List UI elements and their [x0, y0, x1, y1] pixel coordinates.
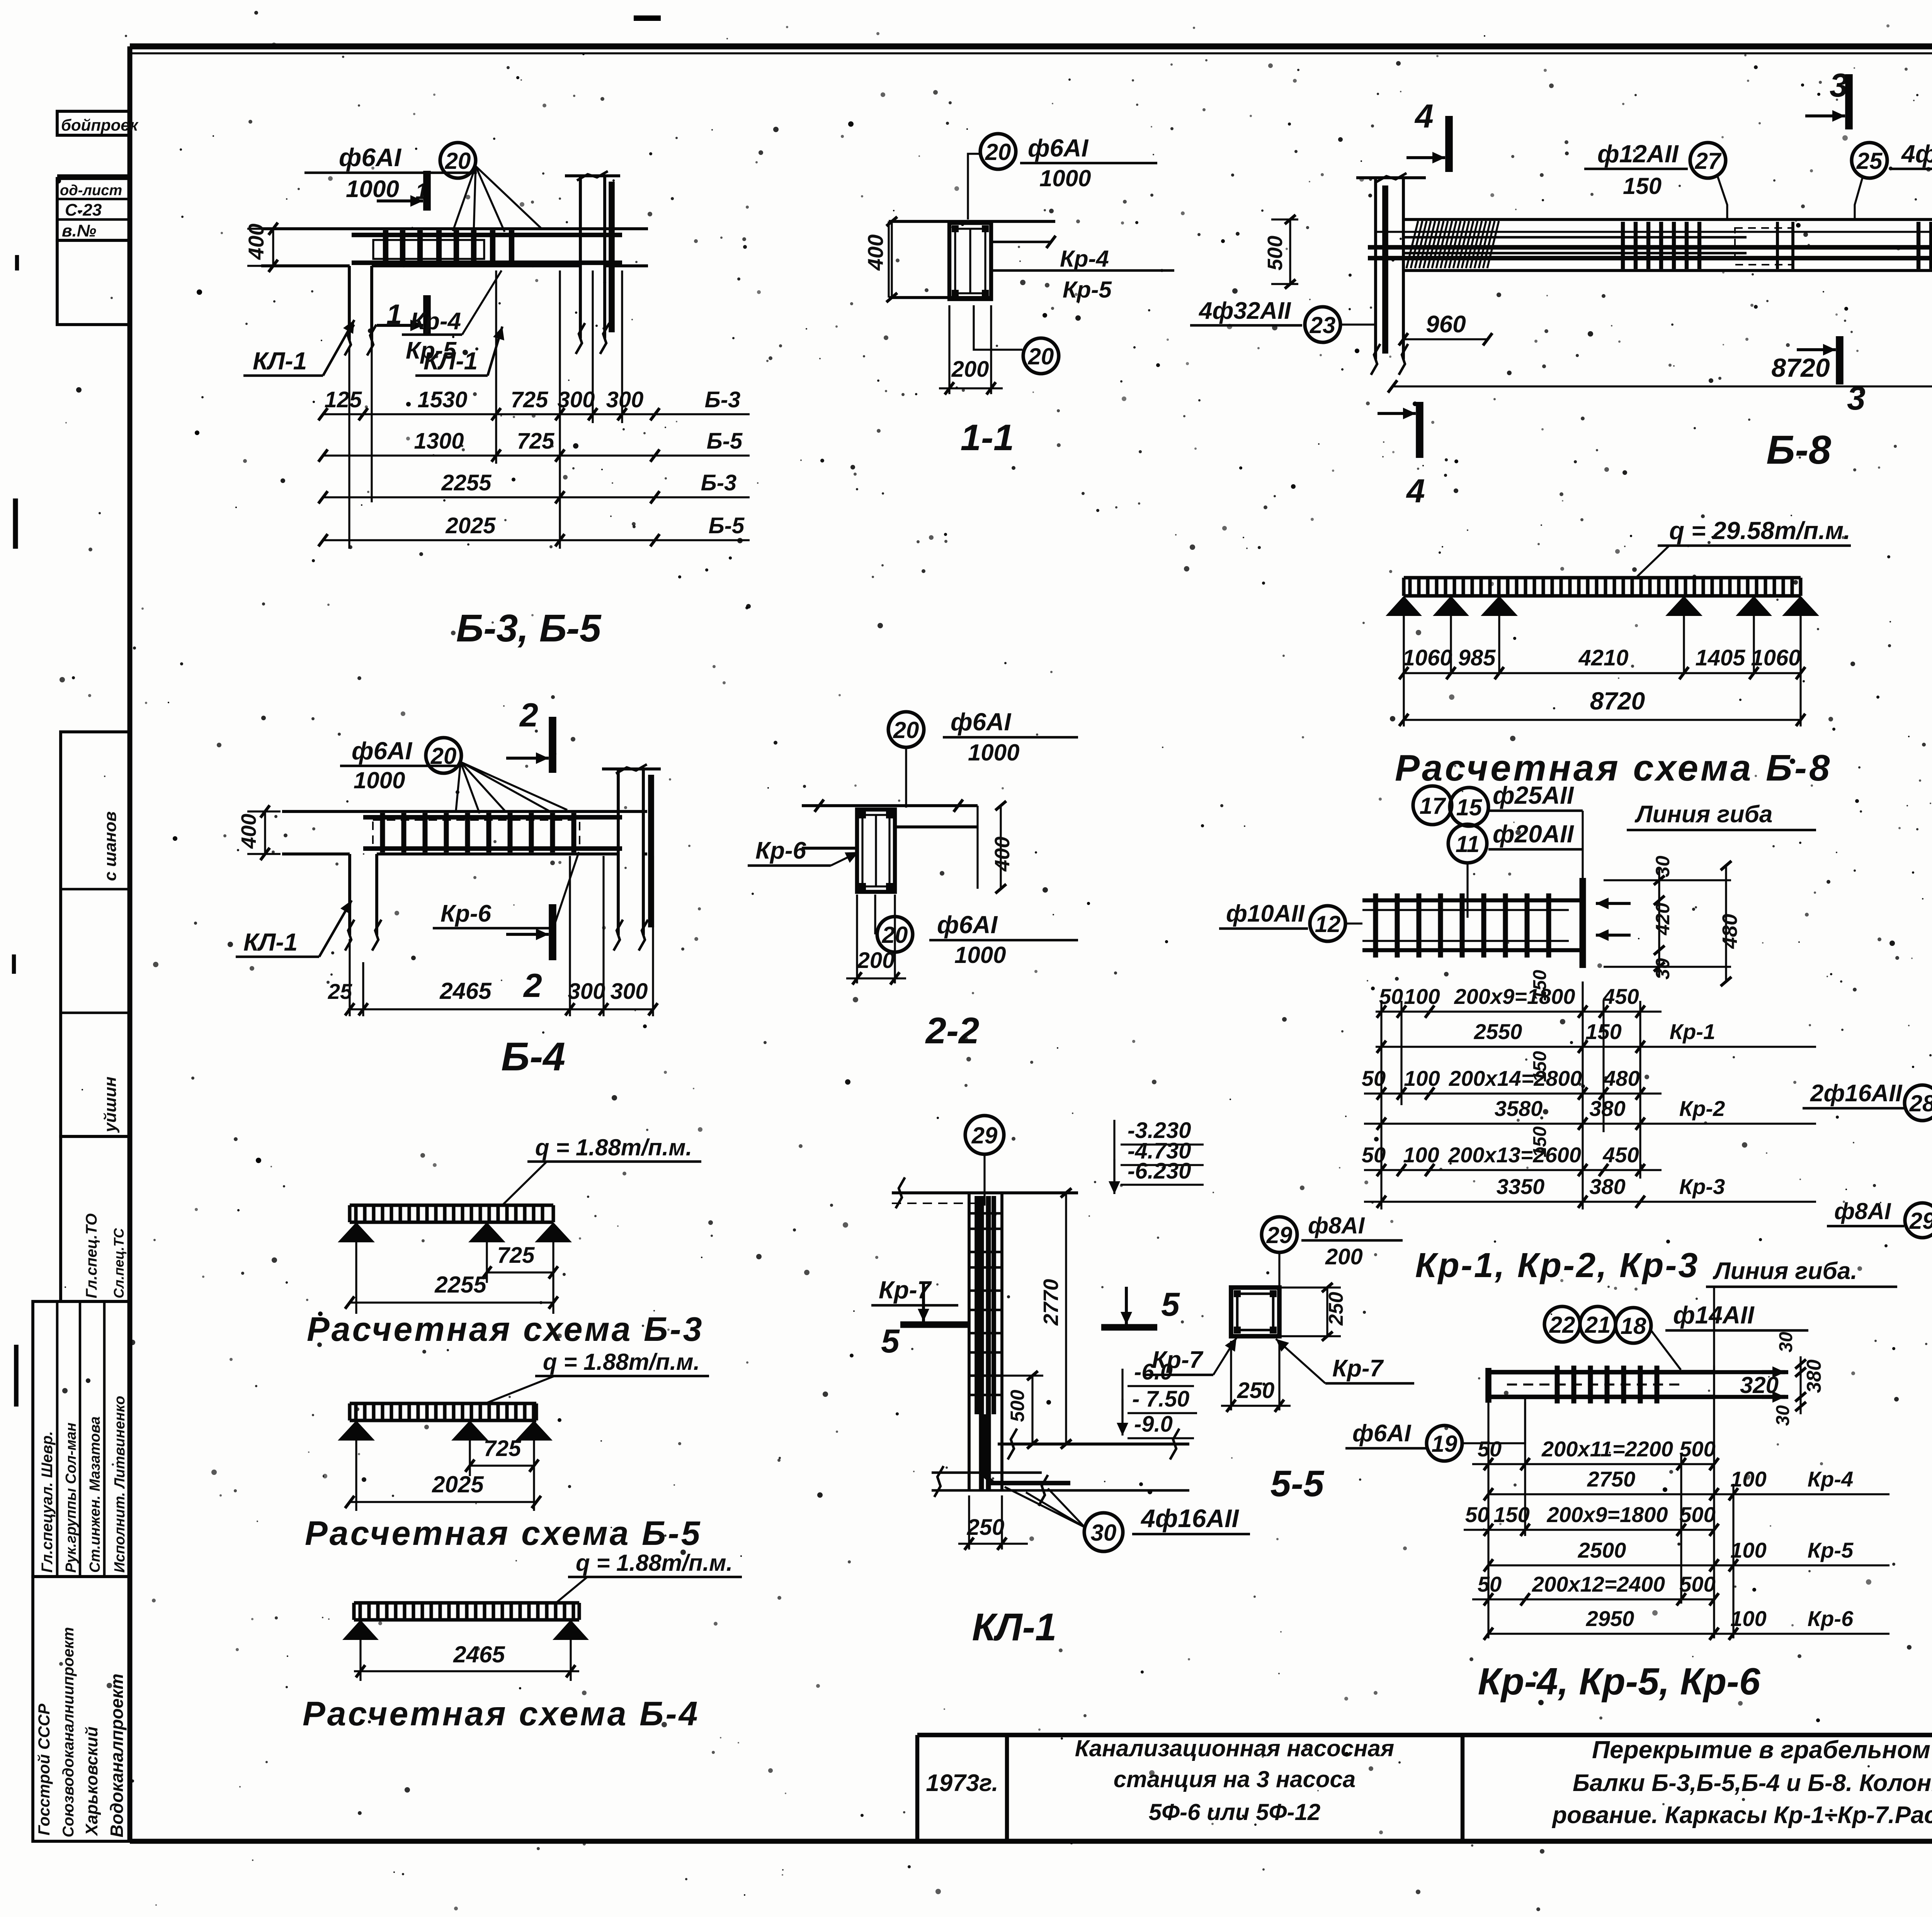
svg-text:30: 30 [1776, 1332, 1796, 1352]
svg-text:Ст.инжен. Мазатова: Ст.инжен. Мазатова [87, 1417, 103, 1573]
svg-text:18: 18 [1621, 1313, 1646, 1339]
svg-text:29: 29 [971, 1123, 998, 1148]
svg-text:1300: 1300 [414, 429, 464, 454]
svg-text:Кр-7: Кр-7 [1152, 1347, 1204, 1373]
svg-text:в.№: в.№ [62, 221, 96, 240]
svg-text:50: 50 [1465, 1502, 1489, 1527]
svg-text:11: 11 [1456, 831, 1480, 857]
svg-text:100: 100 [1730, 1538, 1766, 1562]
svg-text:29: 29 [1266, 1222, 1293, 1248]
svg-text:2465: 2465 [453, 1641, 505, 1667]
svg-text:Гл.спецуал. Шевр.: Гл.спецуал. Шевр. [39, 1431, 56, 1573]
svg-text:200х12=2400: 200х12=2400 [1532, 1572, 1665, 1596]
svg-text:ф8АI: ф8АI [1308, 1213, 1365, 1238]
svg-text:960: 960 [1426, 311, 1466, 338]
svg-text:ф8АI: ф8АI [1834, 1198, 1891, 1224]
svg-text:22: 22 [1549, 1312, 1575, 1338]
svg-text:Кр-5: Кр-5 [1808, 1538, 1854, 1562]
svg-text:1000: 1000 [354, 767, 405, 793]
svg-text:725: 725 [517, 429, 555, 454]
svg-text:250: 250 [1325, 1292, 1347, 1326]
svg-text:5-5: 5-5 [1270, 1463, 1325, 1504]
svg-text:уйшин: уйшин [101, 1077, 120, 1133]
svg-text:ф10АII: ф10АII [1226, 900, 1305, 927]
svg-text:Б-3, Б-5: Б-3, Б-5 [456, 607, 602, 650]
svg-text:30: 30 [1091, 1520, 1117, 1546]
svg-text:ф20АII: ф20АII [1493, 820, 1574, 848]
svg-text:КЛ-1: КЛ-1 [253, 347, 307, 375]
svg-text:ф6АI: ф6АI [951, 708, 1011, 736]
svg-text:2025: 2025 [432, 1471, 484, 1497]
svg-text:300: 300 [568, 979, 605, 1004]
svg-text:Кр-6: Кр-6 [1808, 1606, 1854, 1631]
svg-text:4: 4 [1406, 473, 1425, 510]
svg-text:2500: 2500 [1578, 1538, 1626, 1562]
svg-text:Б-5: Б-5 [709, 513, 745, 538]
svg-text:Кр-1, Кр-2, Кр-3: Кр-1, Кр-2, Кр-3 [1415, 1246, 1699, 1285]
svg-text:21: 21 [1585, 1312, 1611, 1338]
svg-text:Кр-3: Кр-3 [1679, 1174, 1725, 1199]
svg-text:2950: 2950 [1586, 1606, 1634, 1631]
svg-text:q = 1.88т/п.м.: q = 1.88т/п.м. [576, 1550, 733, 1576]
svg-text:20: 20 [893, 717, 919, 743]
svg-text:30: 30 [1652, 958, 1673, 980]
svg-text:20: 20 [1028, 344, 1054, 369]
svg-text:250: 250 [967, 1515, 1005, 1540]
svg-text:100: 100 [1403, 1143, 1439, 1167]
svg-text:50: 50 [1379, 984, 1403, 1009]
svg-text:100: 100 [1730, 1606, 1766, 1631]
svg-text:Кр-4: Кр-4 [1060, 246, 1109, 272]
svg-text:4210: 4210 [1578, 645, 1628, 670]
svg-text:ф6АI: ф6АI [339, 143, 402, 172]
svg-text:4ф16АII: 4ф16АII [1140, 1504, 1240, 1533]
svg-text:Б-4: Б-4 [501, 1034, 565, 1079]
svg-text:q = 1.88т/п.м.: q = 1.88т/п.м. [543, 1349, 700, 1375]
svg-text:ф6АI: ф6АI [937, 911, 998, 939]
svg-text:ф6АI: ф6АI [1028, 134, 1088, 162]
svg-text:-9.0: -9.0 [1134, 1412, 1173, 1437]
svg-text:450: 450 [1602, 1143, 1639, 1167]
svg-text:500: 500 [1007, 1390, 1028, 1422]
svg-text:Кр-5: Кр-5 [1063, 277, 1112, 303]
svg-text:3350: 3350 [1497, 1174, 1545, 1199]
svg-text:- 7.50: - 7.50 [1132, 1386, 1189, 1412]
svg-text:4ф32АII: 4ф32АII [1901, 140, 1932, 168]
svg-text:станция на 3 насоса: станция на 3 насоса [1114, 1766, 1355, 1792]
svg-text:19: 19 [1432, 1431, 1458, 1457]
svg-text:150: 150 [1530, 1126, 1550, 1157]
svg-text:5: 5 [1161, 1286, 1180, 1323]
svg-text:2770: 2770 [1039, 1279, 1063, 1326]
svg-text:-6.230: -6.230 [1128, 1158, 1191, 1184]
svg-text:Расчетная схема Б-8: Расчетная схема Б-8 [1395, 747, 1832, 789]
svg-text:985: 985 [1458, 645, 1496, 670]
svg-text:23: 23 [1310, 312, 1336, 338]
svg-text:Кр-4, Кр-5, Кр-6: Кр-4, Кр-5, Кр-6 [1478, 1660, 1761, 1703]
svg-text:ф25АII: ф25АII [1493, 781, 1574, 809]
svg-text:Союзводоканалниипроект: Союзводоканалниипроект [60, 1627, 77, 1837]
svg-text:200х9=1800: 200х9=1800 [1546, 1502, 1668, 1527]
svg-text:200х9=1800: 200х9=1800 [1454, 984, 1575, 1009]
svg-text:q = 29.58т/п.м.: q = 29.58т/п.м. [1669, 517, 1850, 544]
svg-text:200х13=2600: 200х13=2600 [1448, 1143, 1581, 1167]
svg-text:Б-3: Б-3 [701, 470, 737, 495]
svg-text:Госстрой СССР: Госстрой СССР [35, 1703, 53, 1835]
svg-text:12: 12 [1315, 911, 1341, 937]
svg-text:100: 100 [1404, 1066, 1440, 1090]
svg-text:200х14=2800: 200х14=2800 [1449, 1066, 1582, 1090]
svg-text:1: 1 [386, 299, 402, 330]
svg-text:Кр-1: Кр-1 [1670, 1019, 1715, 1044]
svg-text:Б-5: Б-5 [707, 429, 743, 454]
svg-text:25: 25 [1856, 148, 1883, 174]
svg-text:2465: 2465 [439, 978, 492, 1004]
svg-text:400: 400 [237, 814, 260, 849]
svg-text:Кр-2: Кр-2 [1679, 1096, 1725, 1121]
svg-text:од-лист: од-лист [60, 182, 122, 199]
svg-text:Кр-4: Кр-4 [410, 308, 461, 335]
svg-text:15: 15 [1456, 794, 1483, 820]
svg-text:480: 480 [1603, 1066, 1639, 1090]
svg-text:Гл.спец.ТО: Гл.спец.ТО [83, 1213, 100, 1298]
svg-text:Канализационная насосная: Канализационная насосная [1075, 1735, 1394, 1761]
svg-text:ф6АI: ф6АI [352, 737, 412, 765]
svg-text:бойпроек: бойпроек [61, 116, 139, 134]
svg-text:380: 380 [1589, 1174, 1625, 1199]
svg-text:725: 725 [497, 1243, 535, 1268]
svg-text:250: 250 [1237, 1378, 1275, 1403]
svg-text:20: 20 [430, 743, 457, 769]
svg-text:30: 30 [1652, 856, 1673, 877]
svg-text:2ф16АII: 2ф16АII [1810, 1080, 1903, 1107]
svg-text:1973г.: 1973г. [926, 1770, 998, 1796]
svg-text:380: 380 [1589, 1096, 1625, 1121]
svg-text:20: 20 [445, 148, 471, 174]
svg-text:1000: 1000 [1039, 165, 1091, 191]
svg-text:с шанов: с шанов [101, 811, 120, 881]
svg-text:29: 29 [1909, 1208, 1932, 1234]
svg-text:500: 500 [1264, 236, 1287, 270]
svg-text:КЛ-1: КЛ-1 [423, 347, 478, 375]
svg-text:Расчетная схема Б-3: Расчетная схема Б-3 [307, 1310, 704, 1348]
svg-text:КЛ-1: КЛ-1 [972, 1606, 1056, 1649]
svg-text:8720: 8720 [1590, 687, 1645, 715]
svg-text:Расчетная схема Б-4: Расчетная схема Б-4 [303, 1694, 700, 1733]
svg-text:рование. Каркасы Кр-1÷Кр-7.Рас: рование. Каркасы Кр-1÷Кр-7.Расчетные схе… [1551, 1802, 1932, 1829]
svg-text:2-2: 2-2 [925, 1010, 980, 1051]
svg-text:150: 150 [1530, 970, 1550, 1001]
svg-text:Линия гиба.: Линия гиба. [1713, 1258, 1857, 1284]
svg-text:50: 50 [1478, 1437, 1502, 1461]
svg-text:200х11=2200: 200х11=2200 [1541, 1437, 1673, 1461]
svg-text:200: 200 [1325, 1244, 1363, 1269]
svg-text:5: 5 [881, 1323, 900, 1360]
svg-text:1530: 1530 [417, 387, 467, 412]
svg-text:С-23: С-23 [65, 201, 102, 219]
svg-text:20: 20 [985, 139, 1011, 165]
svg-text:2550: 2550 [1474, 1019, 1522, 1044]
svg-text:125: 125 [325, 387, 362, 412]
svg-text:3580: 3580 [1495, 1096, 1543, 1121]
svg-text:2750: 2750 [1587, 1467, 1636, 1491]
svg-text:400: 400 [244, 224, 268, 260]
svg-text:Б-3: Б-3 [705, 387, 741, 412]
svg-text:30: 30 [1773, 1405, 1793, 1426]
svg-text:1-1: 1-1 [961, 417, 1014, 458]
svg-text:Рук.группы Сол-ман: Рук.группы Сол-ман [63, 1422, 79, 1573]
svg-text:ф12АII: ф12АII [1597, 140, 1679, 168]
svg-text:Линия гиба: Линия гиба [1634, 801, 1772, 828]
svg-text:200: 200 [857, 948, 895, 973]
svg-text:25: 25 [328, 979, 352, 1004]
svg-text:1060: 1060 [1402, 645, 1452, 670]
svg-text:2255: 2255 [441, 470, 492, 495]
svg-text:450: 450 [1602, 984, 1639, 1009]
svg-text:100: 100 [1404, 984, 1440, 1009]
svg-text:420: 420 [1652, 903, 1673, 936]
svg-text:Кр-6: Кр-6 [755, 837, 806, 864]
svg-text:200: 200 [951, 357, 989, 382]
svg-text:Кр-7: Кр-7 [1332, 1355, 1384, 1382]
svg-text:Кр-4: Кр-4 [1808, 1467, 1853, 1491]
svg-text:300: 300 [611, 979, 648, 1004]
svg-text:5Ф-6 или 5Ф-12: 5Ф-6 или 5Ф-12 [1149, 1799, 1320, 1825]
svg-text:4ф32АII: 4ф32АII [1198, 298, 1291, 324]
svg-text:КЛ-1: КЛ-1 [243, 928, 298, 956]
svg-text:Расчетная схема Б-5: Расчетная схема Б-5 [305, 1514, 702, 1552]
svg-text:1000: 1000 [968, 740, 1019, 765]
svg-text:4: 4 [1414, 98, 1434, 135]
svg-text:725: 725 [511, 387, 549, 412]
svg-text:q = 1.88т/п.м.: q = 1.88т/п.м. [535, 1135, 692, 1160]
svg-text:1000: 1000 [346, 176, 399, 202]
svg-text:725: 725 [484, 1436, 522, 1461]
svg-text:380: 380 [1803, 1359, 1825, 1393]
svg-text:50: 50 [1478, 1572, 1502, 1596]
svg-text:Водоканалпроект: Водоканалпроект [107, 1674, 127, 1837]
svg-text:2: 2 [519, 697, 538, 734]
svg-text:480: 480 [1718, 914, 1742, 949]
svg-text:Балки Б-3,Б-5,Б-4 и Б-8. Колон: Балки Б-3,Б-5,Б-4 и Б-8. Колонна КЛ-1. А… [1573, 1770, 1932, 1796]
svg-text:17: 17 [1420, 793, 1446, 819]
svg-text:Кр-6: Кр-6 [440, 900, 492, 927]
svg-text:1060: 1060 [1751, 645, 1801, 670]
svg-text:Сл.пец.ТС: Сл.пец.ТС [111, 1228, 127, 1298]
svg-text:1405: 1405 [1695, 645, 1745, 670]
svg-text:8720: 8720 [1771, 353, 1830, 383]
svg-text:400: 400 [991, 837, 1014, 872]
svg-text:150: 150 [1623, 173, 1662, 199]
svg-text:320: 320 [1740, 1372, 1779, 1398]
svg-text:2255: 2255 [434, 1272, 487, 1298]
svg-text:2025: 2025 [445, 513, 496, 538]
svg-text:Исполнит. Литвиненко: Исполнит. Литвиненко [112, 1396, 128, 1573]
svg-text:Б-8: Б-8 [1766, 427, 1831, 473]
svg-text:400: 400 [863, 235, 888, 271]
svg-text:1000: 1000 [954, 942, 1006, 968]
svg-text:100: 100 [1730, 1467, 1766, 1491]
svg-text:ф6АI: ф6АI [1352, 1420, 1412, 1447]
svg-text:Перекрытие в грабельном отде: Перекрытие в грабельном отделении. [1592, 1736, 1932, 1764]
svg-text:28: 28 [1909, 1090, 1932, 1116]
svg-text:Харьковский: Харьковский [82, 1726, 101, 1837]
svg-text:2: 2 [523, 967, 542, 1004]
svg-text:27: 27 [1695, 148, 1722, 174]
svg-text:150: 150 [1530, 1051, 1550, 1082]
